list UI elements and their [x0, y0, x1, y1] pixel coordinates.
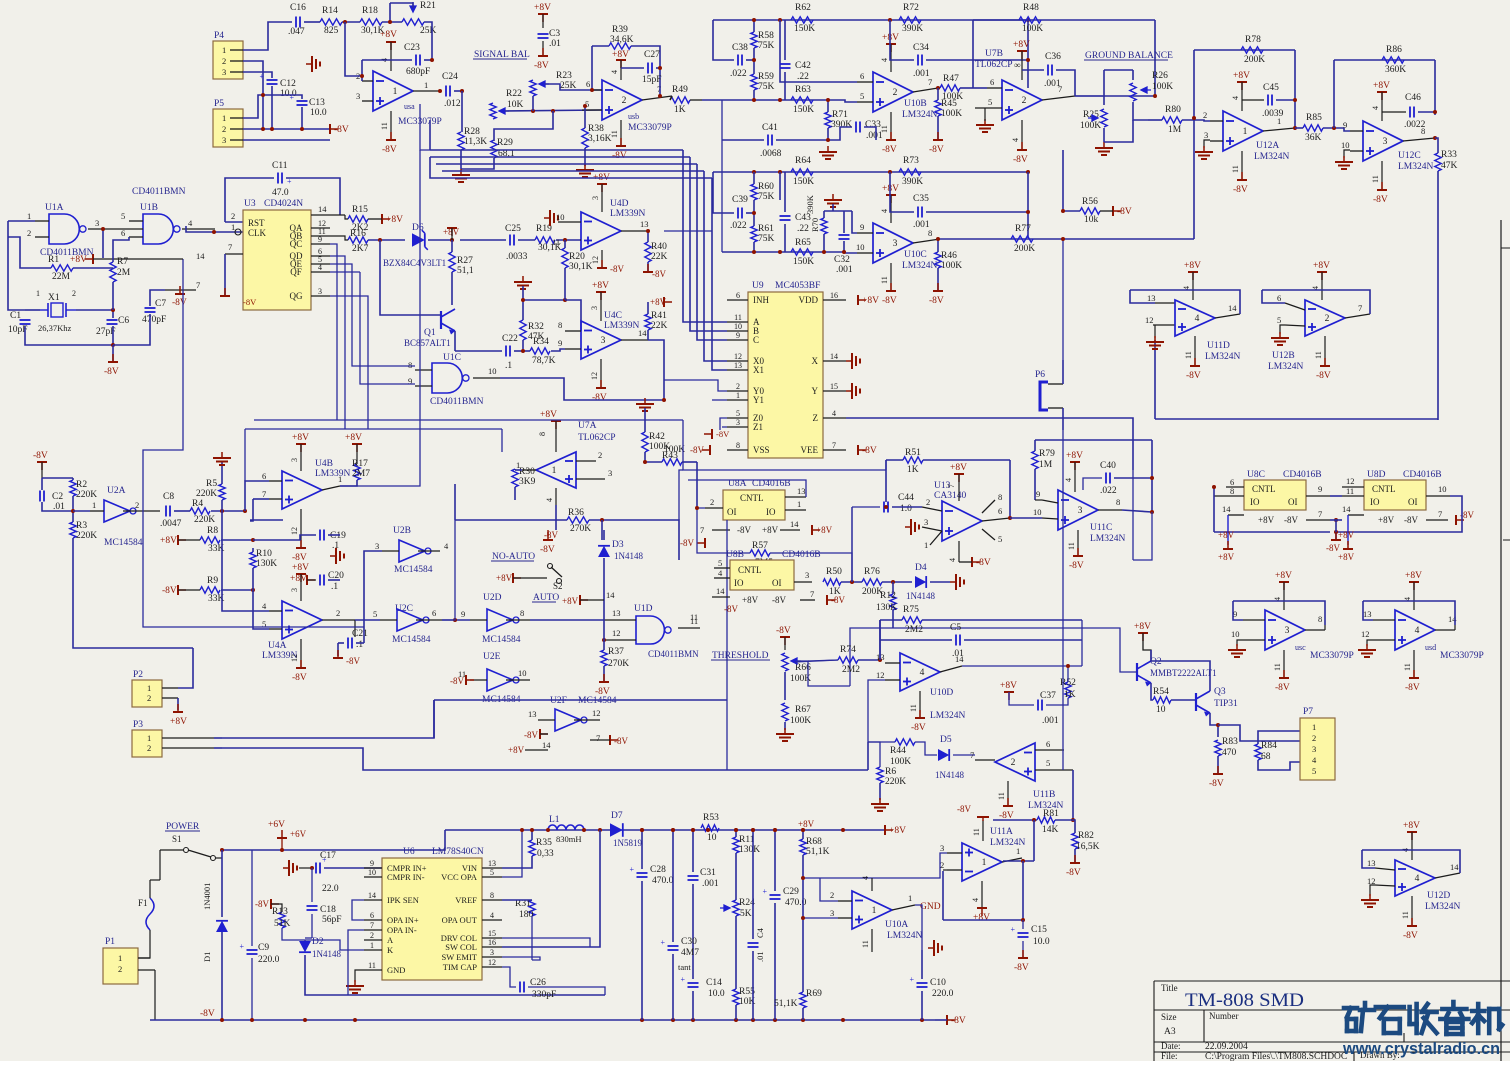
svg-text:U11D: U11D: [1207, 341, 1230, 351]
svg-text:+8V: +8V: [1066, 451, 1083, 461]
svg-text:100K: 100K: [1022, 24, 1043, 34]
svg-text:LM324N: LM324N: [902, 261, 938, 271]
svg-text:4: 4: [1415, 874, 1420, 884]
svg-text:C36: C36: [1045, 52, 1061, 62]
svg-text:-8V: -8V: [882, 296, 897, 306]
svg-text:7: 7: [810, 589, 814, 599]
svg-text:12: 12: [591, 256, 600, 264]
svg-text:7: 7: [228, 242, 232, 252]
svg-text:-8V: -8V: [776, 626, 791, 636]
svg-text:IO: IO: [1250, 497, 1260, 507]
svg-text:TL062CP: TL062CP: [975, 60, 1012, 70]
svg-text:68: 68: [1261, 752, 1271, 762]
svg-text:R6: R6: [885, 767, 896, 777]
svg-text:100K: 100K: [890, 757, 911, 767]
svg-text:-8V: -8V: [772, 595, 786, 605]
svg-text:1: 1: [118, 953, 122, 963]
svg-text:2: 2: [1011, 758, 1016, 768]
svg-text:13: 13: [612, 608, 621, 618]
svg-text:+8V: +8V: [386, 215, 403, 225]
svg-text:R49: R49: [672, 85, 688, 95]
svg-text:-8V: -8V: [957, 804, 971, 814]
svg-text:.001: .001: [913, 220, 930, 230]
svg-text:-8V: -8V: [951, 1016, 966, 1026]
svg-text:100K: 100K: [790, 716, 811, 726]
svg-text:2: 2: [598, 450, 602, 460]
svg-text:9: 9: [1343, 120, 1347, 130]
svg-text:D3: D3: [612, 540, 624, 550]
svg-text:9: 9: [370, 859, 374, 868]
svg-text:QG: QG: [290, 291, 303, 301]
svg-text:2M2: 2M2: [905, 625, 923, 635]
svg-text:U7B: U7B: [985, 49, 1003, 59]
svg-text:270K: 270K: [570, 524, 591, 534]
svg-text:51K: 51K: [274, 919, 291, 929]
svg-text:U4D: U4D: [610, 199, 629, 209]
svg-text:13: 13: [1363, 609, 1372, 619]
svg-text:K: K: [387, 945, 394, 955]
svg-text:C25: C25: [505, 224, 521, 234]
svg-text:.001: .001: [1044, 79, 1061, 89]
svg-text:1: 1: [370, 941, 374, 950]
svg-text:D6: D6: [412, 223, 424, 233]
svg-text:R4: R4: [192, 499, 203, 509]
svg-text:+6V: +6V: [290, 829, 307, 839]
svg-text:+8V: +8V: [592, 281, 609, 291]
svg-text:4: 4: [610, 70, 619, 74]
svg-text:C10: C10: [930, 978, 946, 988]
svg-text:2: 2: [1325, 314, 1330, 324]
svg-text:+8V: +8V: [1233, 71, 1250, 81]
svg-text:+8V: +8V: [345, 433, 362, 443]
svg-text:200K: 200K: [1014, 244, 1035, 254]
svg-text:5K: 5K: [740, 909, 752, 919]
svg-text:3: 3: [318, 287, 322, 296]
svg-text:220.0: 220.0: [258, 955, 280, 965]
svg-text:1K: 1K: [829, 587, 841, 597]
svg-text:+8V: +8V: [1258, 515, 1275, 525]
svg-text:R65: R65: [795, 238, 811, 248]
svg-text:S1: S1: [172, 834, 182, 844]
svg-text:+8V: +8V: [816, 525, 833, 535]
svg-text:Number: Number: [1209, 1011, 1239, 1021]
svg-text:-8V: -8V: [544, 530, 558, 540]
svg-text:+8V: +8V: [1218, 530, 1235, 540]
svg-text:1: 1: [147, 683, 151, 693]
svg-text:-8V: -8V: [1373, 195, 1388, 205]
svg-text:14: 14: [1342, 504, 1351, 514]
svg-text:TIM CAP: TIM CAP: [443, 962, 478, 972]
svg-text:130K: 130K: [876, 603, 897, 613]
svg-text:5: 5: [490, 868, 494, 877]
svg-text:180: 180: [519, 910, 534, 920]
svg-text:C13: C13: [309, 98, 325, 108]
svg-text:R83: R83: [1222, 737, 1238, 747]
svg-text:11: 11: [880, 125, 889, 133]
svg-text:C42: C42: [795, 61, 811, 71]
svg-text:11: 11: [1314, 351, 1323, 359]
svg-text:+8V: +8V: [70, 255, 87, 265]
svg-text:R35: R35: [536, 838, 552, 848]
svg-text:-8V: -8V: [612, 151, 627, 161]
svg-text:-8V: -8V: [534, 61, 549, 71]
svg-text:+8V: +8V: [742, 595, 759, 605]
svg-text:R68: R68: [806, 837, 822, 847]
svg-text:11: 11: [997, 792, 1006, 800]
svg-text:LM324N: LM324N: [930, 711, 966, 721]
svg-text:C27: C27: [644, 50, 660, 60]
svg-text:+8V: +8V: [1184, 261, 1201, 271]
svg-text:.001: .001: [1042, 716, 1059, 726]
svg-text:R13: R13: [272, 907, 288, 917]
svg-text:2: 2: [27, 228, 31, 238]
svg-text:78,7K: 78,7K: [532, 356, 556, 366]
svg-text:220K: 220K: [76, 490, 97, 500]
svg-text:3: 3: [375, 541, 379, 551]
svg-text:4: 4: [920, 668, 925, 678]
svg-text:OI: OI: [1288, 497, 1298, 507]
svg-text:9: 9: [318, 235, 322, 244]
svg-text:Q3: Q3: [1214, 687, 1226, 697]
svg-text:U9: U9: [752, 281, 764, 291]
svg-text:+8V: +8V: [496, 573, 513, 583]
svg-text:U2A: U2A: [107, 486, 126, 496]
svg-text:1: 1: [982, 858, 987, 868]
svg-text:3: 3: [601, 336, 606, 346]
svg-text:.001: .001: [913, 69, 930, 79]
svg-text:R78: R78: [1245, 35, 1261, 45]
svg-text:51,1K: 51,1K: [806, 847, 830, 857]
svg-text:4: 4: [1415, 626, 1420, 636]
svg-text:4: 4: [318, 263, 322, 272]
svg-text:1N4148: 1N4148: [614, 551, 643, 561]
svg-text:4: 4: [1011, 138, 1020, 142]
svg-text:-8V: -8V: [680, 538, 694, 548]
svg-text:File:: File:: [1161, 1051, 1178, 1061]
svg-text:R80: R80: [1165, 105, 1181, 115]
svg-text:6: 6: [1046, 739, 1050, 749]
svg-text:7: 7: [1358, 303, 1362, 313]
svg-text:3: 3: [290, 458, 299, 462]
svg-text:-8V: -8V: [976, 558, 991, 568]
svg-text:Q1: Q1: [424, 328, 436, 338]
svg-text:R5: R5: [206, 479, 217, 489]
svg-text:.022: .022: [1100, 486, 1117, 496]
svg-text:U1D: U1D: [634, 604, 653, 614]
svg-text:10: 10: [1231, 629, 1240, 639]
svg-text:75K: 75K: [758, 234, 775, 244]
svg-text:22.0: 22.0: [322, 884, 339, 894]
svg-text:R85: R85: [1306, 113, 1322, 123]
svg-text:C39: C39: [732, 195, 748, 205]
svg-text:1: 1: [222, 113, 226, 123]
svg-text:9: 9: [1036, 489, 1040, 499]
svg-text:MMBT2222ALT1: MMBT2222ALT1: [1150, 668, 1217, 678]
svg-text:-8V: -8V: [614, 736, 628, 746]
svg-text:2M: 2M: [117, 268, 131, 278]
svg-text:2: 2: [1203, 110, 1207, 120]
svg-text:3: 3: [736, 418, 740, 427]
svg-text:8: 8: [538, 432, 547, 436]
svg-text:10: 10: [556, 212, 565, 222]
svg-text:14: 14: [638, 328, 647, 338]
svg-text:13: 13: [640, 219, 649, 229]
svg-text:7: 7: [370, 921, 374, 930]
svg-text:3: 3: [1285, 626, 1290, 636]
svg-text:1: 1: [393, 87, 398, 97]
svg-text:U1B: U1B: [140, 203, 158, 213]
svg-text:11: 11: [1273, 663, 1282, 671]
svg-text:R42: R42: [649, 432, 665, 442]
svg-text:1K: 1K: [674, 105, 686, 115]
svg-text:100K: 100K: [664, 445, 685, 455]
svg-text:8: 8: [1230, 486, 1234, 496]
svg-text:+8V: +8V: [1218, 552, 1235, 562]
svg-text:5: 5: [718, 558, 722, 568]
svg-text:12: 12: [1346, 476, 1355, 486]
svg-text:R54: R54: [1153, 687, 1169, 697]
svg-text:12: 12: [592, 708, 601, 718]
svg-text:C35: C35: [913, 194, 929, 204]
svg-text:Date:: Date:: [1161, 1041, 1181, 1051]
svg-text:-8V: -8V: [1316, 371, 1331, 381]
svg-text:11: 11: [880, 276, 889, 284]
svg-text:www.crystalradio.cn: www.crystalradio.cn: [1342, 1039, 1500, 1058]
svg-text:9: 9: [736, 331, 740, 340]
svg-text:3: 3: [1383, 137, 1388, 147]
svg-text:MC33079P: MC33079P: [1440, 651, 1484, 661]
svg-text:-8V: -8V: [911, 723, 926, 733]
svg-text:A: A: [387, 935, 394, 945]
svg-text:4: 4: [545, 498, 554, 502]
svg-text:TM-808 SMD: TM-808 SMD: [1185, 990, 1304, 1011]
svg-text:830mH: 830mH: [556, 834, 582, 844]
svg-text:15: 15: [488, 929, 496, 938]
svg-text:100K: 100K: [941, 109, 962, 119]
svg-text:U8B: U8B: [726, 550, 744, 560]
svg-text:130K: 130K: [256, 559, 277, 569]
svg-text:C1: C1: [10, 311, 21, 321]
svg-text:C17: C17: [320, 851, 336, 861]
svg-text:14: 14: [790, 519, 799, 529]
svg-text:6: 6: [586, 79, 590, 89]
svg-text:150K: 150K: [793, 177, 814, 187]
svg-text:11,3K: 11,3K: [464, 137, 487, 147]
svg-text:5: 5: [1312, 766, 1316, 776]
svg-text:7: 7: [700, 525, 704, 535]
svg-text:-8V: -8V: [929, 145, 944, 155]
svg-text:C16: C16: [290, 3, 306, 13]
svg-text:3: 3: [356, 91, 360, 101]
svg-text:1: 1: [1016, 846, 1020, 856]
svg-text:150K: 150K: [794, 24, 815, 34]
svg-text:25K: 25K: [420, 26, 437, 36]
svg-text:OI: OI: [1408, 497, 1418, 507]
svg-text:-8V: -8V: [1284, 515, 1298, 525]
svg-text:1: 1: [36, 289, 40, 298]
svg-text:3: 3: [924, 517, 928, 527]
svg-text:1: 1: [1277, 116, 1281, 126]
svg-text:10: 10: [1341, 140, 1350, 150]
svg-text:15pF: 15pF: [642, 75, 662, 85]
svg-text:150K: 150K: [793, 257, 814, 267]
svg-text:5: 5: [736, 409, 740, 418]
svg-text:2: 2: [1022, 96, 1027, 106]
svg-text:+: +: [661, 938, 666, 947]
svg-text:C3: C3: [549, 29, 560, 39]
svg-text:1M: 1M: [1039, 460, 1053, 470]
svg-text:L1: L1: [549, 815, 560, 825]
svg-text:R61: R61: [758, 224, 774, 234]
svg-text:+8V: +8V: [540, 410, 557, 420]
svg-text:+8V: +8V: [1013, 40, 1030, 50]
svg-text:10K: 10K: [507, 100, 524, 110]
svg-text:R2: R2: [76, 480, 87, 490]
svg-text:2: 2: [1312, 733, 1316, 743]
svg-text:14: 14: [1450, 862, 1459, 872]
svg-text:+8V: +8V: [1338, 530, 1355, 540]
svg-text:13: 13: [488, 859, 496, 868]
svg-text:R1: R1: [48, 255, 59, 265]
svg-text:R76: R76: [864, 567, 880, 577]
svg-text:1: 1: [908, 893, 912, 903]
svg-text:-8V: -8V: [882, 145, 897, 155]
svg-text:P6: P6: [1035, 370, 1045, 380]
svg-text:-8V: -8V: [592, 393, 607, 403]
svg-text:3: 3: [608, 468, 612, 478]
svg-text:C31: C31: [700, 868, 716, 878]
svg-text:U2E: U2E: [483, 652, 501, 662]
svg-text:3,16K: 3,16K: [588, 134, 612, 144]
svg-text:1: 1: [924, 540, 928, 550]
svg-text:C30: C30: [681, 937, 697, 947]
svg-text:8: 8: [490, 891, 494, 900]
svg-text:C12: C12: [280, 79, 296, 89]
svg-text:TIP31: TIP31: [1214, 699, 1238, 709]
svg-text:R38: R38: [588, 124, 604, 134]
svg-text:.0033: .0033: [506, 252, 528, 262]
svg-text:100K: 100K: [1152, 82, 1173, 92]
svg-text:C29: C29: [783, 887, 799, 897]
svg-text:.01: .01: [755, 951, 765, 962]
svg-text:10.0: 10.0: [280, 89, 297, 99]
svg-text:2: 2: [370, 931, 374, 940]
svg-text:26,37Khz: 26,37Khz: [38, 323, 72, 333]
svg-text:3: 3: [490, 948, 494, 957]
svg-text:∞: ∞: [1014, 60, 1020, 70]
svg-text:-8V: -8V: [1069, 561, 1084, 571]
svg-text:QC: QC: [290, 239, 303, 249]
svg-text:+: +: [260, 72, 265, 81]
svg-text:+: +: [681, 975, 686, 984]
svg-text:R73: R73: [903, 156, 919, 166]
svg-text:-8V: -8V: [162, 586, 177, 596]
svg-text:R46: R46: [941, 251, 957, 261]
svg-text:SW COL: SW COL: [445, 942, 477, 952]
svg-text:C44: C44: [898, 493, 914, 503]
svg-text:C45: C45: [1263, 83, 1279, 93]
svg-text:U11A: U11A: [990, 827, 1013, 837]
svg-text:R14: R14: [322, 6, 338, 16]
svg-text:8: 8: [1116, 497, 1120, 507]
svg-text:R71: R71: [832, 110, 848, 120]
svg-text:11: 11: [734, 313, 742, 322]
svg-text:+8V: +8V: [1378, 515, 1395, 525]
svg-text:R33: R33: [1441, 150, 1457, 160]
svg-text:R26: R26: [1152, 71, 1168, 81]
svg-text:C2: C2: [52, 492, 63, 502]
svg-text:390K: 390K: [902, 177, 923, 187]
svg-text:+8V: +8V: [1313, 261, 1330, 271]
svg-text:13: 13: [797, 486, 806, 496]
svg-text:14: 14: [606, 590, 615, 600]
svg-text:U12D: U12D: [1427, 891, 1450, 901]
svg-text:.22: .22: [797, 72, 809, 82]
svg-text:R59: R59: [758, 72, 774, 82]
svg-text:+8V: +8V: [292, 563, 309, 573]
svg-text:C40: C40: [1100, 461, 1116, 471]
svg-text:10: 10: [488, 366, 497, 376]
svg-text:10.0: 10.0: [1033, 937, 1050, 947]
svg-text:1: 1: [92, 500, 96, 510]
svg-text:LM78S40CN: LM78S40CN: [432, 847, 484, 857]
svg-text:1: 1: [231, 222, 235, 232]
svg-text:220.0: 220.0: [932, 989, 954, 999]
svg-text:U6: U6: [403, 847, 415, 857]
svg-text:D1: D1: [202, 952, 212, 962]
svg-text:U11B: U11B: [1033, 790, 1055, 800]
svg-text:R56: R56: [1082, 197, 1098, 207]
svg-text:R51: R51: [905, 448, 921, 458]
svg-text:-8V: -8V: [200, 1009, 215, 1019]
svg-text:MC4053BF: MC4053BF: [775, 281, 820, 291]
svg-text:10k: 10k: [1084, 215, 1099, 225]
svg-text:10: 10: [856, 242, 865, 252]
svg-text:2: 2: [147, 743, 151, 753]
svg-text:5: 5: [998, 534, 1002, 544]
svg-text:680pF: 680pF: [406, 67, 430, 77]
svg-text:R67: R67: [795, 705, 811, 715]
svg-text:+8V: +8V: [160, 536, 177, 546]
svg-text:OI: OI: [727, 507, 737, 517]
svg-text:14: 14: [1228, 303, 1237, 313]
svg-text:R34: R34: [533, 337, 549, 347]
svg-text:C46: C46: [1405, 93, 1421, 103]
svg-text:100K: 100K: [1080, 121, 1101, 131]
svg-text:2: 2: [231, 211, 235, 221]
svg-text:D2: D2: [312, 937, 324, 947]
svg-text:1: 1: [147, 733, 151, 743]
svg-text:CNTL: CNTL: [740, 493, 764, 503]
svg-text:3: 3: [940, 843, 944, 853]
svg-text:3K9: 3K9: [519, 477, 536, 487]
svg-text:9: 9: [1318, 484, 1322, 494]
svg-text:MC14584: MC14584: [482, 635, 521, 645]
svg-text:usb: usb: [628, 112, 639, 121]
svg-text:R8: R8: [207, 526, 218, 536]
svg-text:R27: R27: [457, 256, 473, 266]
svg-text:LM324N: LM324N: [1205, 352, 1241, 362]
svg-text:R75: R75: [903, 605, 919, 615]
svg-text:36K: 36K: [1305, 133, 1322, 143]
svg-text:-8V: -8V: [1209, 779, 1224, 789]
svg-text:14: 14: [1448, 614, 1457, 624]
svg-text:-8V: -8V: [172, 298, 187, 308]
svg-text:2: 2: [72, 289, 76, 298]
svg-text:7: 7: [1438, 509, 1442, 519]
svg-text:R50: R50: [826, 567, 842, 577]
svg-text:6: 6: [998, 506, 1002, 516]
